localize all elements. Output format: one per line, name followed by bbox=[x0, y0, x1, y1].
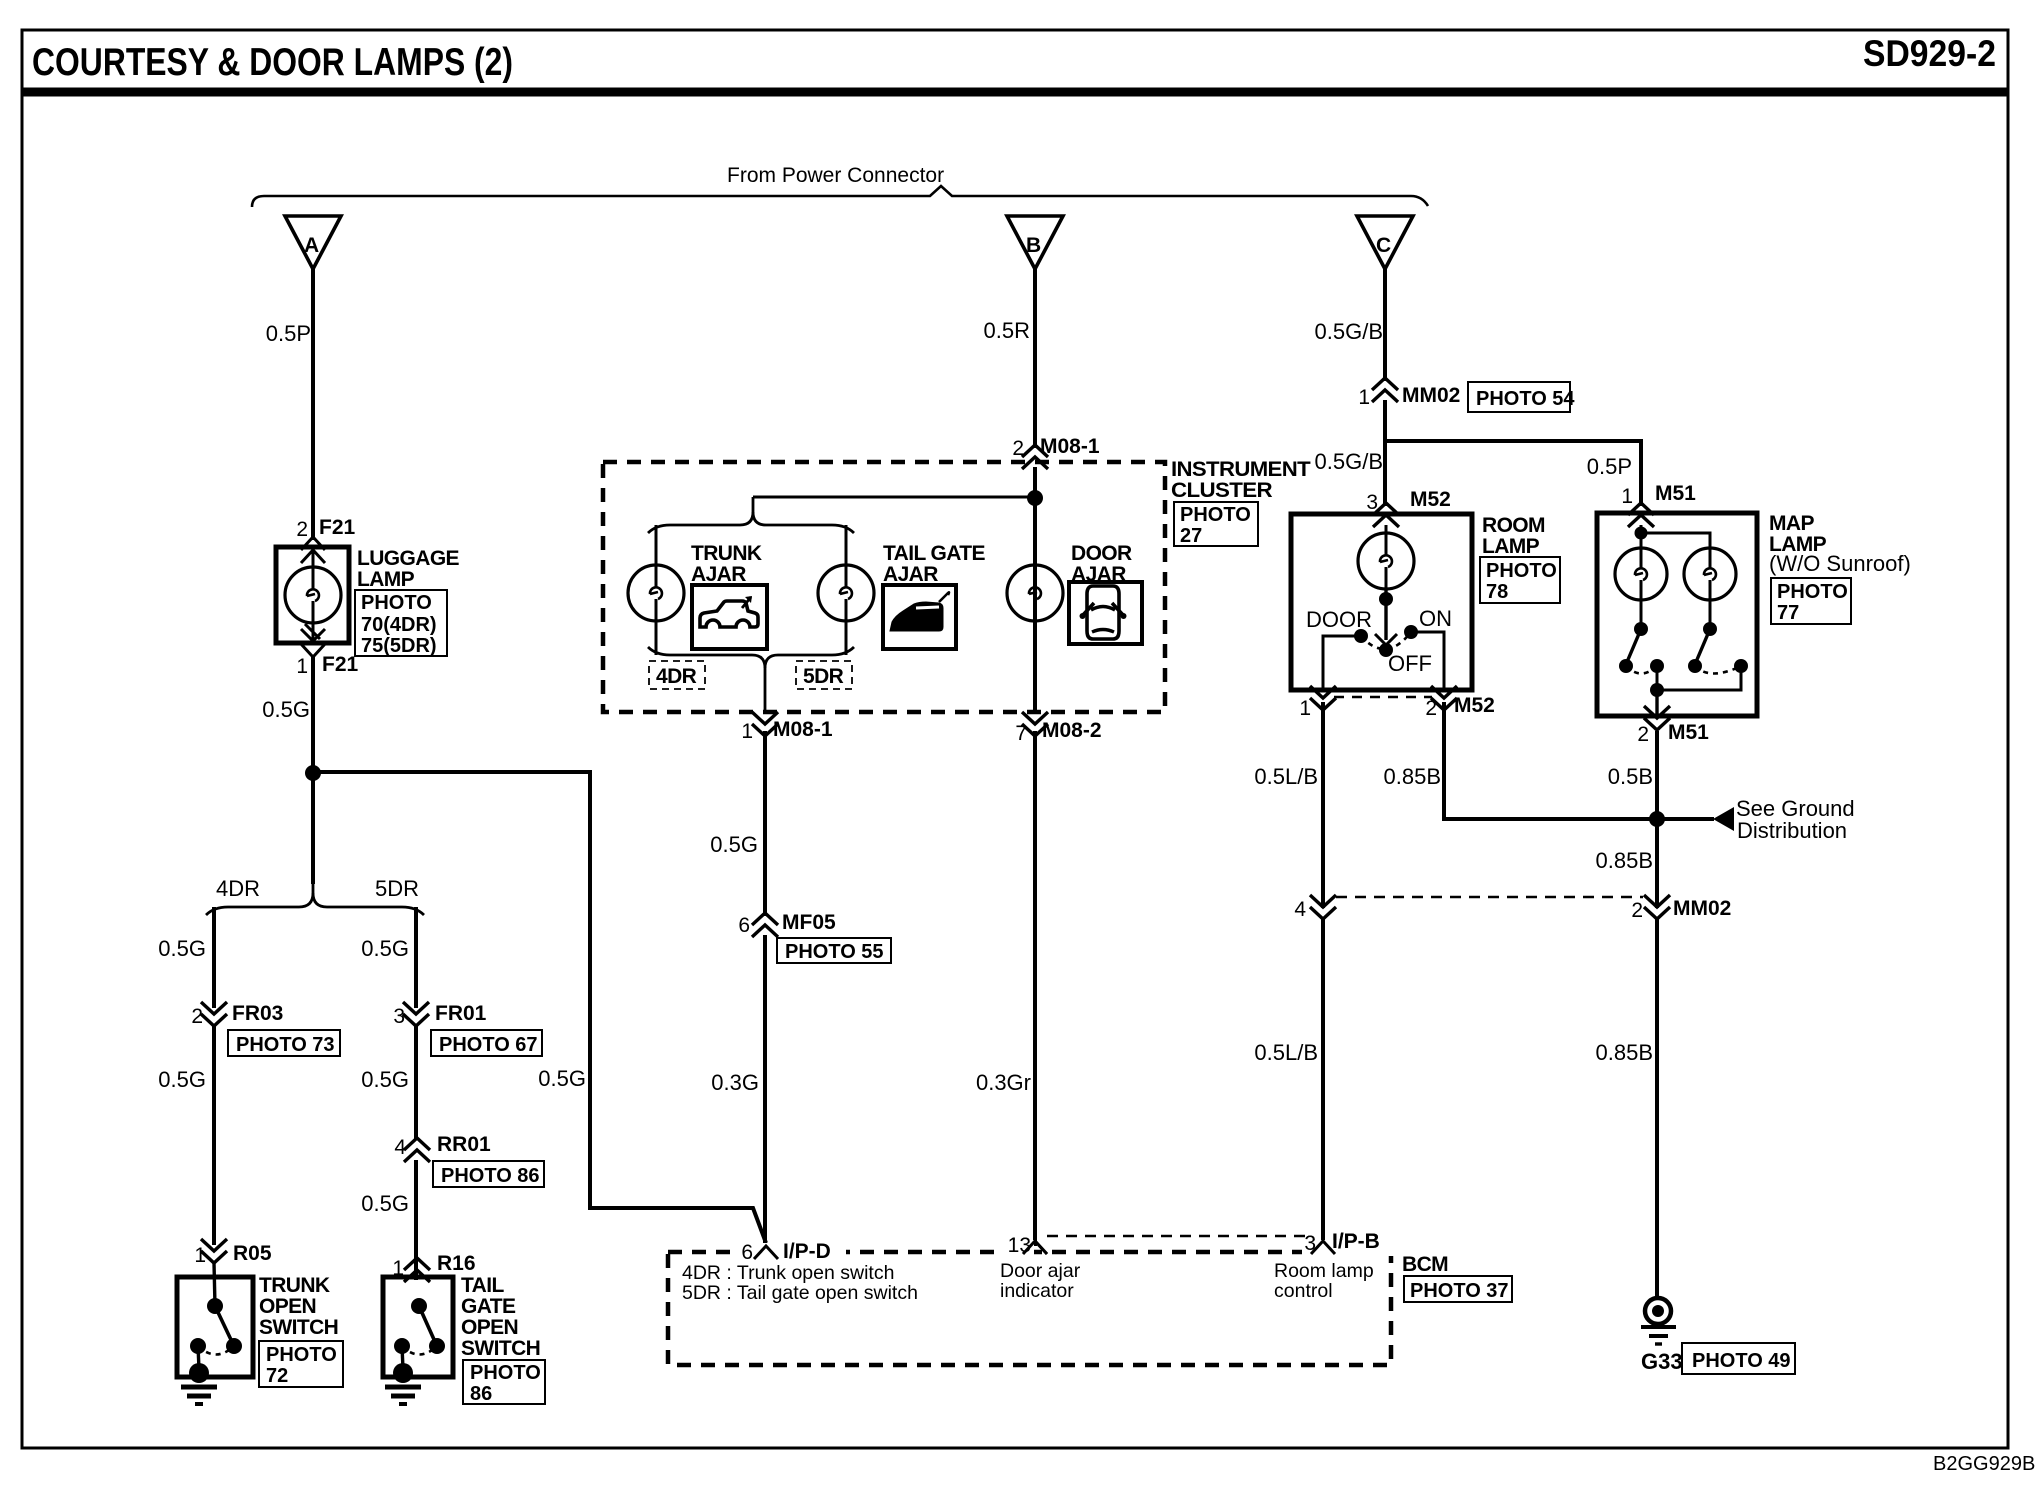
svg-text:0.5P: 0.5P bbox=[1587, 454, 1632, 479]
tail gate ajar bulb wire top bbox=[845, 525, 848, 567]
4DR/5DR branch split bbox=[206, 884, 424, 915]
trunk ajar bulb bbox=[628, 565, 684, 621]
photo 70/75 box bbox=[355, 590, 447, 657]
trunk switch contacts bbox=[190, 1298, 242, 1369]
svg-text:0.5G/B: 0.5G/B bbox=[1315, 319, 1383, 344]
connector M08-2 pin 7 bbox=[1015, 712, 1101, 745]
connector M52 pin 2 bbox=[1425, 686, 1495, 720]
connector BCM pin 4 bbox=[1294, 895, 1336, 921]
svg-text:Door ajar: Door ajar bbox=[1000, 1260, 1081, 1282]
connector RR01 pin 4 bbox=[394, 1133, 491, 1162]
svg-text:GATE: GATE bbox=[461, 1295, 516, 1318]
trunk ajar bulb wire bottom bbox=[655, 621, 658, 655]
svg-text:78: 78 bbox=[1486, 581, 1508, 603]
trunk ajar bulb wire top bbox=[655, 525, 658, 567]
svg-text:0.5G: 0.5G bbox=[361, 1067, 409, 1092]
wire into trunk switch bbox=[214, 1263, 215, 1306]
svg-text:Distribution: Distribution bbox=[1737, 818, 1847, 843]
photo 72 box bbox=[259, 1341, 343, 1387]
wire C down bbox=[1383, 269, 1387, 381]
connector BCM pin 13 bbox=[1008, 1234, 1047, 1257]
svg-text:0.5G: 0.5G bbox=[361, 936, 409, 961]
svg-text:0.5G: 0.5G bbox=[538, 1066, 586, 1091]
svg-text:C: C bbox=[1376, 234, 1391, 257]
wire MM02 to G33 bbox=[1655, 919, 1659, 1299]
wire branch to map lamp bbox=[1385, 441, 1641, 506]
title bar separator bbox=[22, 88, 2008, 97]
map lamp wire to pin 2 bbox=[1655, 690, 1658, 716]
photo 73 box bbox=[228, 1030, 340, 1056]
wire 4DR branch upper bbox=[212, 907, 216, 1008]
svg-text:M51: M51 bbox=[1655, 482, 1696, 505]
photo 37 box bbox=[1404, 1276, 1512, 1302]
connector I/P-B pin 3 bbox=[1304, 1230, 1380, 1255]
svg-text:13: 13 bbox=[1008, 1234, 1031, 1257]
svg-text:4DR: 4DR bbox=[656, 665, 697, 688]
svg-text:PHOTO 86: PHOTO 86 bbox=[441, 1165, 540, 1187]
svg-text:0.5G: 0.5G bbox=[158, 1067, 206, 1092]
connector FR03 pin 2 bbox=[191, 1002, 283, 1028]
door ajar icon bbox=[1069, 582, 1142, 644]
svg-text:3: 3 bbox=[393, 1005, 405, 1028]
photo 67 box bbox=[431, 1030, 542, 1056]
wire pin4 to I/P-B bbox=[1321, 919, 1325, 1246]
svg-text:LAMP: LAMP bbox=[1482, 535, 1540, 558]
svg-text:SWITCH: SWITCH bbox=[461, 1337, 540, 1360]
map lamp left switch bbox=[1619, 598, 1664, 690]
map lamp bulb right bbox=[1684, 548, 1736, 600]
room lamp switch feed bbox=[1375, 589, 1397, 657]
wire B down bbox=[1033, 269, 1037, 448]
wire 5DR branch upper bbox=[414, 907, 418, 1008]
connector M51 pin 2 bbox=[1637, 706, 1709, 746]
svg-text:0.5P: 0.5P bbox=[266, 321, 311, 346]
svg-text:MM02: MM02 bbox=[1402, 384, 1460, 407]
photo 54 box bbox=[1468, 382, 1575, 412]
svg-text:5DR : Tail gate open switch: 5DR : Tail gate open switch bbox=[682, 1282, 918, 1304]
svg-text:PHOTO: PHOTO bbox=[1486, 560, 1557, 582]
photo 27 box bbox=[1174, 502, 1258, 547]
trunk switch ground bbox=[181, 1363, 217, 1404]
svg-text:M52: M52 bbox=[1410, 488, 1451, 511]
trunk open switch box bbox=[177, 1277, 253, 1377]
wire junction to right bbox=[313, 770, 590, 774]
svg-text:LAMP: LAMP bbox=[357, 568, 415, 591]
svg-text:0.5G: 0.5G bbox=[361, 1191, 409, 1216]
svg-text:FR01: FR01 bbox=[435, 1002, 487, 1025]
svg-text:DOOR: DOOR bbox=[1306, 607, 1372, 632]
BCM dashed box bbox=[668, 1252, 1391, 1365]
svg-text:F21: F21 bbox=[319, 516, 356, 539]
wire down segment x590 bbox=[588, 770, 592, 1208]
photo 86 box upper bbox=[433, 1161, 544, 1187]
svg-text:From Power Connector: From Power Connector bbox=[727, 164, 944, 187]
svg-text:PHOTO: PHOTO bbox=[1777, 581, 1848, 603]
svg-text:3: 3 bbox=[1366, 491, 1378, 514]
connector I/P-D pin 6 bbox=[741, 1240, 831, 1264]
connector MM02 pin 2 bbox=[1631, 895, 1731, 922]
svg-text:2: 2 bbox=[1425, 697, 1437, 720]
5DR option label bbox=[796, 661, 852, 689]
svg-text:ROOM: ROOM bbox=[1482, 514, 1545, 537]
room lamp switch dashed arc bbox=[1361, 632, 1411, 649]
svg-text:4DR : Trunk open switch: 4DR : Trunk open switch bbox=[682, 1262, 894, 1284]
ground distribution node dot bbox=[1649, 811, 1665, 827]
svg-text:MAP: MAP bbox=[1769, 512, 1814, 535]
svg-text:PHOTO 54: PHOTO 54 bbox=[1476, 388, 1575, 410]
photo 78 box bbox=[1480, 557, 1560, 603]
map lamp top junction bbox=[1635, 525, 1711, 550]
svg-text:ON: ON bbox=[1419, 606, 1452, 631]
svg-text:(W/O Sunroof): (W/O Sunroof) bbox=[1769, 551, 1911, 576]
dashed link 13 to I/P-B bbox=[1047, 1235, 1310, 1237]
svg-text:Room lamp: Room lamp bbox=[1274, 1260, 1374, 1282]
svg-text:A: A bbox=[304, 234, 319, 257]
svg-text:PHOTO 67: PHOTO 67 bbox=[439, 1034, 538, 1056]
svg-text:G33: G33 bbox=[1641, 1349, 1683, 1374]
luggage lamp bottom arrow bbox=[301, 624, 325, 641]
cluster option brace top bbox=[648, 497, 854, 533]
svg-text:M08-1: M08-1 bbox=[773, 718, 833, 741]
wire cluster feed horizontal bbox=[753, 496, 1035, 499]
room lamp wire to pin 1 bbox=[1323, 636, 1361, 688]
wire A down to luggage lamp bbox=[311, 269, 315, 540]
connector triangle B bbox=[1007, 216, 1063, 269]
svg-text:0.5G/B: 0.5G/B bbox=[1315, 449, 1383, 474]
trunk ajar icon bbox=[692, 585, 767, 649]
junction node dot bbox=[305, 765, 321, 781]
svg-text:72: 72 bbox=[266, 1365, 288, 1387]
map lamp common node bbox=[1650, 683, 1664, 697]
svg-text:MM02: MM02 bbox=[1673, 897, 1731, 920]
svg-text:0.5G: 0.5G bbox=[262, 697, 310, 722]
connector R16 pin 1 bbox=[392, 1252, 475, 1282]
svg-text:2: 2 bbox=[296, 518, 308, 541]
wire M08-1 to MF05 bbox=[763, 731, 767, 916]
svg-text:0.5G: 0.5G bbox=[158, 936, 206, 961]
dashed link 4 to MM02 bbox=[1336, 896, 1643, 898]
see ground distribution arrow bbox=[1657, 807, 1734, 831]
door ajar bulb bbox=[1007, 565, 1063, 621]
map lamp box bbox=[1597, 513, 1757, 716]
svg-text:R16: R16 bbox=[437, 1252, 476, 1275]
connector I/P-D label overlay bbox=[740, 1240, 846, 1264]
brace From Power Connector bbox=[252, 186, 1428, 207]
svg-text:0.3Gr: 0.3Gr bbox=[976, 1070, 1031, 1095]
room lamp bulb bbox=[1358, 533, 1414, 589]
connector M52 pin 1 bbox=[1299, 686, 1336, 720]
room lamp wire to pin 2 bbox=[1411, 632, 1444, 688]
connector triangle C bbox=[1357, 216, 1413, 269]
svg-text:6: 6 bbox=[738, 914, 750, 937]
wire M52 pin2 to ground node bbox=[1444, 702, 1657, 819]
tail gate ajar icon bbox=[883, 585, 956, 649]
svg-text:7: 7 bbox=[1015, 722, 1027, 745]
svg-text:I/P-D: I/P-D bbox=[783, 1240, 831, 1263]
svg-text:0.85B: 0.85B bbox=[1596, 848, 1654, 873]
room lamp box bbox=[1291, 514, 1472, 690]
connector I/P-B label overlay bbox=[1302, 1230, 1398, 1256]
svg-text:2: 2 bbox=[1012, 437, 1024, 460]
svg-text:4DR: 4DR bbox=[216, 876, 260, 901]
svg-text:5DR: 5DR bbox=[803, 665, 844, 688]
svg-text:2: 2 bbox=[1631, 899, 1643, 922]
svg-text:AJAR: AJAR bbox=[883, 563, 938, 586]
svg-text:M51: M51 bbox=[1668, 721, 1709, 744]
svg-text:77: 77 bbox=[1777, 602, 1799, 624]
svg-text:TRUNK: TRUNK bbox=[691, 542, 762, 565]
svg-text:4: 4 bbox=[1294, 898, 1306, 921]
svg-text:M08-2: M08-2 bbox=[1042, 719, 1102, 742]
svg-text:0.5L/B: 0.5L/B bbox=[1254, 1040, 1318, 1065]
svg-text:F21: F21 bbox=[322, 653, 359, 676]
svg-text:PHOTO: PHOTO bbox=[266, 1344, 337, 1366]
tail gate switch ground bbox=[385, 1363, 421, 1404]
svg-text:PHOTO 73: PHOTO 73 bbox=[236, 1034, 335, 1056]
svg-text:PHOTO 37: PHOTO 37 bbox=[1410, 1280, 1509, 1302]
svg-text:SWITCH: SWITCH bbox=[259, 1316, 338, 1339]
luggage lamp internal wires bbox=[312, 547, 315, 567]
svg-text:M08-1: M08-1 bbox=[1040, 435, 1100, 458]
svg-text:1: 1 bbox=[1621, 485, 1633, 508]
svg-text:1: 1 bbox=[741, 720, 753, 743]
luggage lamp box bbox=[276, 547, 349, 643]
dashed link M52 pins bbox=[1334, 696, 1432, 698]
svg-text:70(4DR): 70(4DR) bbox=[361, 614, 437, 636]
wire MF05 to I/P-D bbox=[763, 935, 767, 1246]
svg-text:6: 6 bbox=[741, 1241, 753, 1264]
svg-text:INSTRUMENT: INSTRUMENT bbox=[1171, 458, 1311, 481]
svg-text:B2GG929B: B2GG929B bbox=[1933, 1453, 2035, 1475]
tail gate open switch box bbox=[383, 1277, 453, 1377]
svg-text:PHOTO: PHOTO bbox=[470, 1362, 541, 1384]
svg-text:4: 4 bbox=[394, 1136, 406, 1159]
svg-text:2: 2 bbox=[1637, 723, 1649, 746]
svg-text:M52: M52 bbox=[1454, 694, 1495, 717]
4DR option label bbox=[649, 661, 705, 689]
tail gate switch contacts bbox=[394, 1298, 445, 1369]
ground G33 bbox=[1641, 1298, 1676, 1344]
connector 13 label overlay bbox=[1000, 1234, 1047, 1257]
wire M08-2 to BCM 13 bbox=[1033, 731, 1037, 1246]
connector R05 pin 1 bbox=[194, 1239, 272, 1267]
svg-text:CLUSTER: CLUSTER bbox=[1171, 479, 1272, 502]
svg-text:SD929-2: SD929-2 bbox=[1863, 33, 1996, 74]
room lamp bulb wire bbox=[1385, 525, 1388, 535]
svg-text:75(5DR): 75(5DR) bbox=[361, 635, 437, 657]
svg-text:RR01: RR01 bbox=[437, 1133, 491, 1156]
svg-text:MF05: MF05 bbox=[782, 911, 836, 934]
luggage lamp bulb bbox=[285, 567, 341, 623]
svg-text:AJAR: AJAR bbox=[691, 563, 746, 586]
svg-text:PHOTO: PHOTO bbox=[361, 592, 432, 614]
svg-text:1: 1 bbox=[194, 1244, 206, 1267]
tail gate ajar bulb bbox=[818, 565, 874, 621]
wire right segment to I/P-D bbox=[588, 1208, 766, 1243]
connector FR01 pin 3 bbox=[393, 1002, 486, 1028]
connector F21 pin 1 bbox=[296, 644, 358, 678]
wire luggage lamp to junction bbox=[311, 655, 315, 884]
svg-text:0.5B: 0.5B bbox=[1608, 764, 1653, 789]
room lamp ON contact bbox=[1404, 625, 1418, 639]
svg-text:OFF: OFF bbox=[1388, 651, 1432, 676]
wire 4DR branch lower bbox=[212, 1026, 216, 1245]
wire M52 pin1 down bbox=[1321, 702, 1325, 908]
map lamp bulb left bbox=[1615, 548, 1667, 600]
svg-text:indicator: indicator bbox=[1000, 1280, 1074, 1302]
svg-text:FR03: FR03 bbox=[232, 1002, 283, 1025]
connector F21 pin 2 bbox=[296, 516, 355, 563]
svg-text:DOOR: DOOR bbox=[1071, 542, 1132, 565]
connector MF05 pin 6 bbox=[738, 911, 836, 937]
svg-text:0.3G: 0.3G bbox=[711, 1070, 759, 1095]
svg-text:PHOTO 55: PHOTO 55 bbox=[785, 941, 884, 963]
connector M08-1 pin 2 bbox=[1012, 435, 1100, 469]
svg-text:I/P-B: I/P-B bbox=[1332, 1230, 1380, 1253]
svg-text:1: 1 bbox=[1299, 697, 1311, 720]
photo 49 box bbox=[1682, 1343, 1795, 1374]
svg-text:0.5G: 0.5G bbox=[710, 832, 758, 857]
svg-text:OPEN: OPEN bbox=[259, 1295, 316, 1318]
svg-text:COURTESY & DOOR LAMPS (2): COURTESY & DOOR LAMPS (2) bbox=[32, 41, 513, 84]
wire M51 pin2 down bbox=[1655, 731, 1659, 908]
svg-text:27: 27 bbox=[1180, 525, 1202, 547]
connector M52 pin 3 bbox=[1366, 488, 1451, 527]
photo 77 box bbox=[1771, 578, 1851, 624]
svg-text:0.85B: 0.85B bbox=[1384, 764, 1442, 789]
svg-text:0.85B: 0.85B bbox=[1596, 1040, 1654, 1065]
svg-text:86: 86 bbox=[470, 1383, 492, 1405]
connector MM02 pin 1 bbox=[1358, 378, 1460, 409]
junction node dot B bbox=[1027, 490, 1043, 506]
wire MM02 to M52 bbox=[1383, 400, 1387, 506]
svg-text:R05: R05 bbox=[233, 1242, 272, 1265]
svg-text:OPEN: OPEN bbox=[461, 1316, 518, 1339]
cluster option brace bottom bbox=[648, 647, 854, 712]
wire 5DR branch lower bbox=[414, 1160, 418, 1280]
svg-text:1: 1 bbox=[296, 655, 308, 678]
svg-text:TAIL: TAIL bbox=[461, 1274, 504, 1297]
photo 55 box bbox=[777, 938, 891, 963]
map lamp right switch bbox=[1657, 598, 1748, 690]
svg-text:B: B bbox=[1026, 234, 1041, 257]
wire 5DR branch mid bbox=[414, 1026, 418, 1140]
wire B into cluster bbox=[1033, 467, 1037, 714]
svg-text:3: 3 bbox=[1304, 1232, 1316, 1255]
svg-text:TRUNK: TRUNK bbox=[259, 1274, 330, 1297]
tail gate ajar bulb wire bottom bbox=[845, 621, 848, 655]
svg-text:0.5L/B: 0.5L/B bbox=[1254, 764, 1318, 789]
svg-text:TAIL GATE: TAIL GATE bbox=[883, 542, 986, 565]
svg-text:0.5R: 0.5R bbox=[984, 318, 1030, 343]
svg-text:BCM: BCM bbox=[1402, 1253, 1448, 1276]
svg-text:LUGGAGE: LUGGAGE bbox=[357, 547, 460, 570]
connector triangle A bbox=[285, 216, 341, 269]
svg-text:control: control bbox=[1274, 1280, 1333, 1302]
svg-text:5DR: 5DR bbox=[375, 876, 419, 901]
svg-text:PHOTO 49: PHOTO 49 bbox=[1692, 1350, 1791, 1372]
room lamp DOOR contact bbox=[1354, 629, 1368, 643]
instrument cluster dashed box bbox=[603, 462, 1165, 712]
svg-text:2: 2 bbox=[191, 1005, 203, 1028]
svg-text:1: 1 bbox=[1358, 386, 1370, 409]
connector M08-1 pin 1 bbox=[741, 712, 833, 743]
svg-text:PHOTO: PHOTO bbox=[1180, 504, 1251, 526]
photo 86 box lower bbox=[463, 1360, 545, 1405]
connector M51 pin 1 bbox=[1621, 482, 1696, 527]
